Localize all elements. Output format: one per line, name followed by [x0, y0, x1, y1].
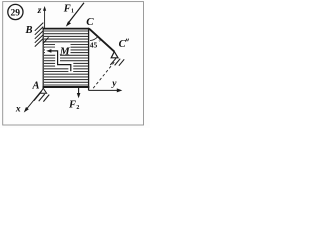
svg-text:C: C [119, 39, 127, 50]
svg-text:A: A [32, 81, 40, 92]
svg-text:°: ° [99, 41, 101, 46]
svg-text:29: 29 [11, 8, 21, 18]
svg-text:C: C [86, 16, 94, 28]
svg-text:y: y [111, 79, 117, 89]
svg-text:F: F [63, 3, 71, 14]
svg-text:1: 1 [71, 9, 74, 15]
svg-text:2: 2 [76, 105, 79, 111]
svg-text:M: M [59, 45, 71, 57]
svg-text:x: x [15, 104, 21, 114]
svg-text:z: z [37, 6, 42, 16]
svg-text:F: F [68, 100, 76, 111]
svg-text:45: 45 [90, 40, 98, 49]
svg-text:B: B [25, 25, 33, 36]
